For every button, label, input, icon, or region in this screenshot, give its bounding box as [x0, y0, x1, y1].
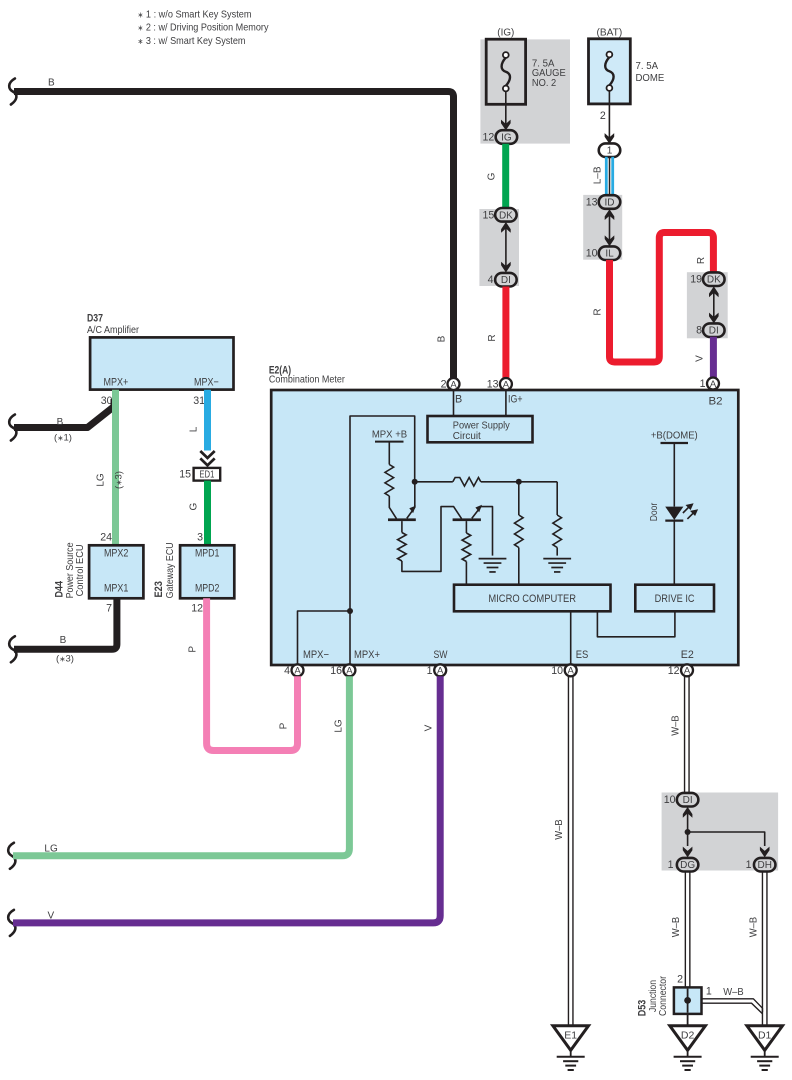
arrow up to DI (10): [683, 807, 693, 818]
fuse DOME element: [605, 52, 613, 91]
pin 16 label: [330, 665, 342, 677]
wire L-B (blue/black stripe): [606, 157, 612, 196]
label B (top wire): [48, 78, 55, 89]
label (*3) lower: [56, 654, 74, 665]
label Door: [648, 502, 660, 521]
power rail MPX+B: [375, 441, 404, 443]
wire MPX- branch: [298, 611, 351, 665]
label L-B: [593, 166, 604, 184]
pin 13 connector A: [500, 378, 512, 390]
arrow down to DG: [683, 847, 693, 858]
svg-text:A/C Amplifier: A/C Amplifier: [87, 325, 140, 336]
svg-text:1: 1: [668, 859, 674, 871]
label W-B (DH): [748, 917, 760, 937]
resistor R-base Q1: [398, 533, 407, 562]
wire +B to LED: [673, 443, 675, 507]
resistor R-base Q2: [462, 533, 471, 562]
pin 12 label (E2): [668, 665, 680, 677]
svg-text:16: 16: [330, 665, 342, 677]
pin 12 label: [483, 131, 495, 143]
ECU box E2(A) Combination Meter: [271, 390, 738, 665]
svg-text:NO. 2: NO. 2: [532, 78, 557, 89]
svg-text:MPX2: MPX2: [104, 548, 129, 560]
label MPX +B: [372, 428, 407, 440]
label +B(DOME): [651, 430, 698, 442]
svg-text:W–B: W–B: [670, 917, 682, 937]
label L: [189, 426, 200, 432]
svg-text:∗ 3 : w/ Smart Key System: ∗ 3 : w/ Smart Key System: [138, 35, 246, 47]
connector oval 1: [599, 143, 621, 157]
svg-text:A: A: [437, 666, 444, 677]
port label MPX+: [354, 649, 380, 661]
svg-text:L–B: L–B: [593, 166, 604, 184]
label R (left leg): [593, 308, 604, 315]
harness break (lower left): [9, 636, 16, 662]
svg-text:10: 10: [664, 794, 676, 806]
port label MPX1: [104, 582, 129, 594]
svg-text:(BAT): (BAT): [597, 27, 623, 39]
pin 19 label: [690, 274, 702, 286]
label 7.5A DOME: [636, 61, 665, 84]
label LG (horizontal): [44, 844, 58, 855]
svg-text:MPX−: MPX−: [194, 377, 219, 389]
svg-text:B: B: [48, 78, 55, 89]
svg-text:10: 10: [586, 248, 598, 260]
harness break (LG): [8, 843, 15, 869]
label W-B (ES): [553, 819, 565, 839]
wire MPX bus riser: [350, 416, 415, 611]
ECU box D37 A/C Amplifier: [90, 337, 233, 389]
LED door diode: [665, 507, 683, 521]
svg-text:Gateway ECU: Gateway ECU: [165, 542, 176, 598]
wire DI to junction: [687, 812, 689, 832]
label V (horizontal): [48, 911, 55, 922]
pin 31 label: [193, 395, 205, 407]
wire micro computer to drive ic: [597, 611, 675, 637]
wire Q2 base to micro computer: [465, 562, 467, 585]
pin 7 label: [106, 602, 112, 614]
svg-text:ID: ID: [605, 198, 615, 209]
connector oval DI (10): [677, 793, 699, 807]
label LG (upper): [96, 473, 107, 487]
pin 12 label (E23): [191, 602, 203, 614]
svg-text:V: V: [424, 724, 435, 731]
svg-text:10: 10: [551, 665, 563, 677]
transistor Q1 base bar: [388, 518, 416, 521]
transistor Q2 emitter: [472, 505, 493, 556]
svg-text:(∗3): (∗3): [114, 471, 125, 489]
svg-text:A: A: [710, 379, 717, 390]
wire fuse DOME down: [608, 91, 610, 138]
svg-text:A: A: [450, 379, 457, 390]
junction node (ground split): [685, 829, 691, 835]
svg-text:Power Supply: Power Supply: [453, 420, 511, 431]
label Combination Meter: [269, 375, 346, 386]
svg-text:1: 1: [427, 665, 433, 677]
arrow up to DK (19): [709, 286, 719, 297]
svg-text:B: B: [455, 394, 462, 406]
svg-text:(∗3): (∗3): [56, 654, 74, 665]
transistor Q2 base bar: [453, 518, 481, 521]
svg-text:1: 1: [607, 146, 613, 157]
port label B2: [709, 396, 723, 408]
label W-B (DG): [670, 917, 682, 937]
svg-text:DI: DI: [501, 275, 511, 286]
svg-text:1: 1: [700, 378, 706, 390]
svg-text:DK: DK: [499, 210, 513, 221]
wire LG lower: [13, 676, 349, 856]
pin 30 label: [101, 395, 113, 407]
wire LG upper: [112, 390, 119, 546]
svg-text:R: R: [487, 334, 498, 341]
pin 4 label (MPX-): [284, 665, 290, 677]
svg-text:IG+: IG+: [508, 394, 523, 406]
label Connector: [658, 975, 669, 1016]
label B (vertical run): [437, 335, 448, 342]
wire through D53: [687, 989, 689, 1013]
harness break (V): [8, 910, 15, 936]
pin 15 label: [483, 209, 495, 221]
svg-text:A: A: [684, 666, 691, 677]
wire MPX bus vertical: [349, 611, 351, 665]
svg-text:Combination Meter: Combination Meter: [269, 375, 346, 386]
wire R red over-route: [610, 233, 714, 363]
transistor Q1 emitter: [407, 484, 416, 518]
wire resistor to node B: [481, 481, 557, 483]
wire fuse IG to connector: [505, 91, 507, 124]
connector block ID/IL background: [583, 195, 622, 260]
svg-text:MPX+: MPX+: [354, 649, 380, 661]
MICRO COMPUTER box: [454, 585, 611, 612]
port label SW: [434, 649, 449, 661]
connector oval DI (8): [703, 323, 725, 337]
ground D1: [747, 1026, 783, 1070]
label D37: [87, 313, 103, 325]
port label B: [455, 394, 462, 406]
port label E2: [681, 649, 694, 661]
wire W-B D53 to D1: [702, 999, 763, 1014]
junction node (MPX bus): [347, 608, 353, 614]
pin 1 label (SW): [427, 665, 433, 677]
wire G green: [502, 144, 509, 210]
wire W-B from DH: [762, 871, 767, 1025]
ground D2: [670, 1026, 706, 1070]
label P (right): [279, 722, 290, 729]
svg-text:(∗1): (∗1): [54, 433, 72, 444]
svg-text:LG: LG: [334, 719, 345, 733]
fuse block (IG) background: [480, 39, 570, 143]
svg-text:D44: D44: [54, 581, 66, 598]
svg-text:V: V: [695, 355, 706, 362]
wire W-B from ES: [568, 676, 573, 1026]
wire V purple long: [13, 676, 440, 923]
pin 2 (A) label: [441, 379, 447, 391]
label V (vertical): [424, 724, 435, 731]
svg-text:1: 1: [706, 985, 712, 997]
pin 1 label (D53): [706, 985, 712, 997]
wire micro computer to ES: [570, 611, 572, 664]
label Junction: [648, 980, 659, 1012]
arrow down to DI (8): [709, 313, 719, 324]
port label MPX-: [303, 649, 329, 661]
junction connector D53 box: [674, 987, 702, 1014]
pin 10 label (ES): [551, 665, 563, 677]
stub pin13 to PSC: [505, 390, 507, 416]
wire LED to drive ic: [673, 521, 675, 585]
connector oval DK (19): [703, 272, 725, 286]
resistor R-collector Q1: [385, 465, 394, 497]
pin 10 label (IL): [586, 248, 598, 260]
svg-text:MPD1: MPD1: [195, 548, 220, 560]
svg-text:R: R: [593, 308, 604, 315]
svg-text:19: 19: [690, 274, 702, 286]
svg-text:V: V: [48, 911, 55, 922]
pin 2 label (fuse): [600, 110, 606, 122]
label Control ECU: [75, 544, 86, 596]
svg-text:Circuit: Circuit: [453, 431, 481, 442]
pin 13 (A) label: [487, 379, 499, 391]
connector oval DI (4): [495, 273, 517, 287]
arrow into IG connector: [501, 120, 511, 131]
port label MPD1: [195, 548, 220, 560]
connector block DK/DI (19/8) background: [687, 272, 728, 338]
svg-text:(IG): (IG): [497, 27, 514, 39]
resistor R-horizontal: [453, 478, 481, 487]
label P (left): [188, 646, 199, 653]
legend notes *1 *2 *3: [138, 9, 270, 47]
connector oval IL: [599, 246, 621, 260]
pin 2 connector A: [448, 378, 460, 390]
svg-text:W–B: W–B: [723, 986, 743, 998]
label LG (vertical): [334, 719, 345, 733]
pin 1 label (DG): [668, 859, 674, 871]
pin 1 label (DH): [746, 859, 752, 871]
svg-text:DG: DG: [680, 860, 695, 871]
harness break (top left): [9, 79, 16, 105]
shield crossing arrows into ED1: [200, 451, 214, 465]
wire B black from left to pin 2: [14, 92, 454, 379]
svg-text:DI: DI: [709, 326, 719, 337]
svg-text:W–B: W–B: [670, 715, 682, 735]
pin 2 label (D53): [677, 973, 683, 985]
svg-text:ED1: ED1: [199, 470, 214, 481]
svg-text:LG: LG: [44, 844, 58, 855]
label (*1): [54, 433, 72, 444]
wire split to DH side: [688, 832, 765, 846]
pin 13 label (ID): [586, 197, 598, 209]
label (*3) upper: [114, 471, 125, 489]
fuse DOME box: [589, 39, 631, 104]
pin 24 label: [100, 532, 112, 544]
svg-text:1: 1: [746, 859, 752, 871]
svg-text:ES: ES: [576, 649, 589, 661]
svg-text:B: B: [57, 417, 64, 428]
wire split to DG: [687, 832, 689, 846]
svg-text:R: R: [696, 257, 707, 264]
svg-text:Door: Door: [648, 502, 660, 521]
svg-text:15: 15: [483, 209, 495, 221]
port label MPD2: [195, 582, 220, 594]
svg-text:MPX +B: MPX +B: [372, 428, 407, 440]
svg-text:B: B: [437, 335, 448, 342]
label G (gateway): [189, 502, 200, 510]
svg-text:E1: E1: [564, 1030, 577, 1042]
svg-text:P: P: [279, 722, 290, 729]
Power Supply Circuit box: [428, 416, 533, 442]
pin 4 connector A: [292, 664, 304, 676]
svg-text:MPX+: MPX+: [104, 377, 129, 389]
DRIVE IC box: [635, 585, 714, 612]
label R: [487, 334, 498, 341]
svg-text:E23: E23: [153, 581, 165, 598]
wire DK to DI: [505, 228, 507, 266]
svg-text:D53: D53: [637, 1000, 649, 1017]
port label MPX- (D37): [194, 377, 219, 389]
svg-text:MPX1: MPX1: [104, 582, 129, 594]
label B (mid): [57, 417, 64, 428]
pin 15 label (ED1): [179, 468, 191, 480]
pin 12 connector A: [681, 664, 693, 676]
wire V purple to pin 1: [710, 337, 717, 378]
pin 10 label (DI): [664, 794, 676, 806]
resistor R-pullup2: [553, 482, 562, 556]
svg-text:G: G: [487, 172, 498, 180]
wire Q1 base resistor loop: [402, 507, 462, 572]
label G: [487, 172, 498, 180]
label (IG): [497, 27, 514, 39]
pin 4 label: [488, 274, 494, 286]
svg-text:W–B: W–B: [553, 819, 565, 839]
arrow down to DI: [501, 262, 511, 273]
svg-text:∗ 1 : w/o Smart Key System: ∗ 1 : w/o Smart Key System: [138, 9, 252, 21]
wire node A to resistor: [415, 481, 453, 483]
svg-text:12: 12: [191, 602, 203, 614]
svg-text:∗ 2 : w/ Driving Position Memo: ∗ 2 : w/ Driving Position Memory: [138, 22, 270, 34]
svg-text:B: B: [60, 635, 67, 646]
svg-text:DK: DK: [707, 275, 721, 286]
pin 16 connector A: [343, 664, 355, 676]
svg-text:4: 4: [284, 665, 290, 677]
svg-text:24: 24: [100, 532, 112, 544]
label E2(A): [269, 365, 292, 377]
svg-text:A: A: [346, 666, 353, 677]
label W-B (D53 out): [723, 986, 743, 998]
label A/C Amplifier: [87, 325, 140, 336]
pin 3 label: [197, 532, 203, 544]
svg-text:DH: DH: [757, 860, 771, 871]
wire P pink: [207, 598, 298, 750]
svg-text:13: 13: [487, 379, 499, 391]
label D53: [637, 1000, 649, 1017]
wire rail to resistor: [388, 442, 390, 465]
connector oval IG: [496, 130, 518, 144]
power rail +B(DOME): [661, 442, 689, 444]
ECU box D44 Power Source Control ECU: [89, 545, 143, 598]
connector oval DH: [754, 858, 776, 872]
svg-text:7. 5A: 7. 5A: [636, 61, 659, 72]
svg-text:2: 2: [441, 379, 447, 391]
arrow up to ID: [605, 209, 615, 220]
connector oval ID: [599, 195, 621, 209]
connector oval DK (15): [495, 208, 517, 222]
pin 10 connector A: [565, 664, 577, 676]
wire W-B from DG: [685, 871, 690, 987]
svg-text:MPX−: MPX−: [303, 649, 329, 661]
harness break (mid left): [9, 415, 16, 441]
junction node D53: [684, 997, 691, 1004]
pin 1 (A) label B2: [700, 378, 706, 390]
label (BAT): [597, 27, 623, 39]
svg-text:2: 2: [677, 973, 683, 985]
svg-text:DI: DI: [683, 795, 693, 806]
svg-text:IG: IG: [501, 133, 512, 144]
svg-text:LG: LG: [96, 473, 107, 487]
svg-text:4: 4: [488, 274, 494, 286]
junction node B: [516, 479, 522, 485]
svg-text:D1: D1: [758, 1030, 772, 1042]
svg-text:D37: D37: [87, 313, 103, 325]
pin 8 label: [696, 325, 702, 337]
pin 1 connector A (SW): [434, 664, 446, 676]
svg-text:A: A: [503, 379, 510, 390]
port label MPX+ (D37): [104, 377, 129, 389]
svg-text:P: P: [188, 646, 199, 653]
port label ES: [576, 649, 589, 661]
svg-text:IL: IL: [605, 249, 614, 260]
svg-text:Control ECU: Control ECU: [75, 544, 86, 596]
svg-text:8: 8: [696, 325, 702, 337]
svg-text:SW: SW: [434, 649, 449, 661]
stub pin2 to PSC: [453, 390, 455, 416]
fuse GAUGE NO.2 element: [502, 52, 510, 91]
svg-text:A: A: [294, 666, 301, 677]
svg-text:G: G: [189, 502, 200, 510]
wire W-B from E2: [685, 676, 690, 793]
wire resistor to Q1: [389, 496, 396, 519]
LED emission arrows: [683, 503, 698, 519]
wire G to gateway: [204, 481, 211, 546]
svg-text:L: L: [189, 426, 200, 432]
svg-text:31: 31: [193, 395, 205, 407]
arrow down to IL: [605, 235, 615, 246]
fuse GAUGE NO.2 box: [486, 39, 525, 104]
svg-text:MICRO COMPUTER: MICRO COMPUTER: [488, 593, 576, 605]
connector block DI/DG/DH background: [662, 793, 779, 871]
wire B to pin 30: [14, 399, 114, 428]
wire ID to IL: [609, 215, 611, 240]
wire Q1 base down: [401, 521, 403, 532]
svg-text:D2: D2: [681, 1030, 695, 1042]
svg-text:DOME: DOME: [636, 73, 665, 84]
label Gateway ECU: [165, 542, 176, 598]
svg-text:DRIVE IC: DRIVE IC: [655, 593, 695, 605]
ground E1: [553, 1026, 589, 1070]
arrow down to DH: [760, 847, 770, 858]
svg-text:B2: B2: [709, 396, 723, 408]
svg-text:W–B: W–B: [748, 917, 760, 937]
port label MPX2: [104, 548, 129, 560]
ECU box E23 Gateway ECU: [180, 545, 234, 598]
connector oval DG: [677, 858, 699, 872]
arrow up to DK: [501, 222, 511, 233]
wire B from MPX1: [14, 598, 117, 649]
label W-B (E2): [670, 715, 682, 735]
ground (pullup2): [543, 559, 571, 572]
label V (short): [695, 355, 706, 362]
label D44: [54, 581, 66, 598]
svg-text:3: 3: [197, 532, 203, 544]
svg-text:A: A: [568, 666, 575, 677]
